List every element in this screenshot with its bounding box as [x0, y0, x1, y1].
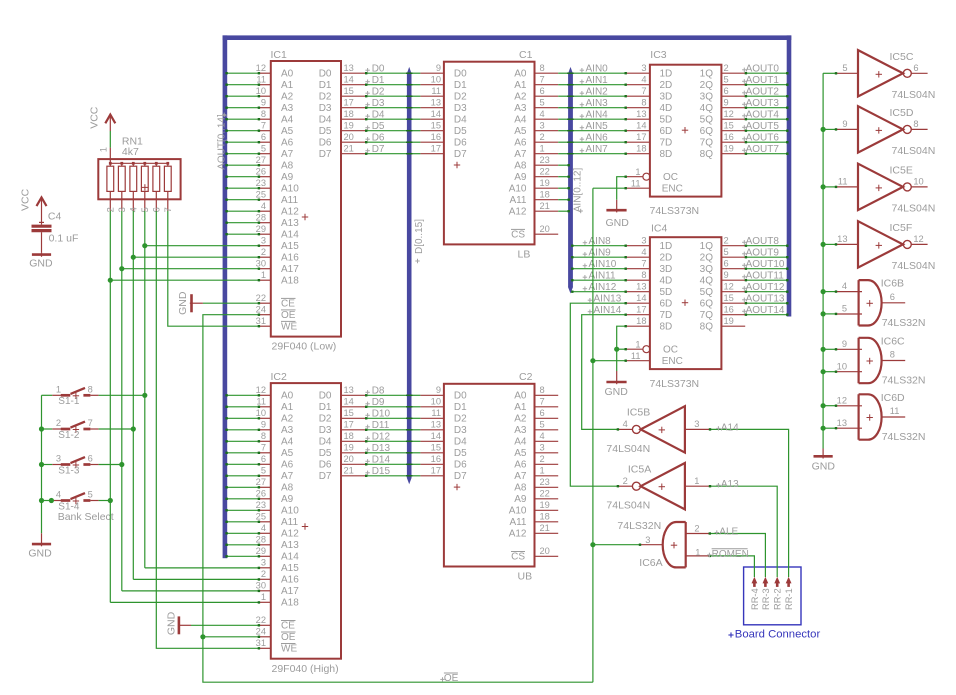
svg-text:2: 2 [261, 569, 266, 579]
net label AIN10 [583, 259, 617, 270]
wire AOUT8 bus to IC2 A8 [225, 486, 260, 488]
net label AIN0 [580, 64, 608, 75]
wire AIN5 C1 to bus [558, 130, 568, 132]
svg-text:9: 9 [261, 419, 266, 429]
svg-text:D15: D15 [372, 466, 391, 477]
net label AOUT12 [742, 282, 785, 293]
svg-text:A7: A7 [514, 471, 527, 482]
svg-text:5Q: 5Q [700, 115, 714, 126]
net label D7 [365, 144, 385, 155]
svg-text:WE: WE [281, 644, 297, 655]
svg-text:A12: A12 [281, 207, 299, 218]
svg-text:RR-4: RR-4 [750, 588, 760, 610]
svg-text:A8: A8 [514, 483, 527, 494]
svg-text:11: 11 [431, 408, 441, 418]
svg-text:A5: A5 [281, 448, 294, 459]
svg-text:8: 8 [88, 385, 93, 395]
wire D7 IC1 to bus [365, 153, 407, 155]
net label AIN11 [583, 271, 616, 282]
svg-text:4Q: 4Q [700, 103, 714, 114]
Bank Select label [58, 511, 114, 523]
svg-text:Bank Select: Bank Select [58, 511, 114, 523]
svg-text:17: 17 [636, 132, 646, 142]
GND text under C4 [29, 258, 53, 270]
svg-text:5: 5 [724, 247, 729, 257]
wire AIN12 C1 to bus [558, 210, 570, 212]
svg-text:OC: OC [663, 172, 678, 183]
wire A15 to IC2 [145, 567, 260, 569]
wire AIN10 C1 to bus [558, 187, 570, 189]
svg-text:4: 4 [540, 109, 545, 119]
IC4 name label [651, 223, 668, 235]
svg-text:D2: D2 [372, 87, 385, 98]
svg-text:AOUT12: AOUT12 [746, 282, 785, 293]
svg-text:A3: A3 [514, 425, 527, 436]
wire AIN2 C1 to bus [558, 95, 568, 97]
svg-text:D7: D7 [319, 471, 332, 482]
net label AIN9 [583, 248, 611, 259]
svg-text:D[0..15]: D[0..15] [414, 219, 425, 254]
svg-text:25: 25 [256, 189, 266, 199]
net label D1 [365, 75, 385, 86]
svg-text:3: 3 [540, 442, 545, 452]
wire D11 bus to C2 [406, 429, 420, 431]
svg-text:D5: D5 [319, 126, 332, 137]
svg-text:18: 18 [636, 316, 646, 326]
S1-1 name label [58, 396, 80, 407]
svg-text:IC6C: IC6C [881, 335, 905, 347]
wire IC4 8D to OC [617, 325, 627, 349]
net label AIN2 [580, 87, 608, 98]
net label AIN12 [583, 282, 617, 293]
svg-text:RR-2: RR-2 [773, 588, 783, 610]
wire AOUT13 bus to IC1 A13 [225, 222, 260, 224]
wire AOUT1 bus to IC2 A1 [225, 406, 260, 408]
svg-text:A10: A10 [509, 184, 527, 195]
net label AIN6 [580, 133, 608, 144]
net OE: IC1 OE down and bottom run [203, 314, 593, 683]
inverter IC5E 74LS04N [836, 164, 928, 210]
svg-text:5: 5 [261, 465, 266, 475]
svg-text:ALE: ALE [719, 527, 738, 538]
svg-text:74LS04N: 74LS04N [892, 89, 936, 101]
svg-text:IC2: IC2 [271, 371, 288, 383]
svg-text:3D: 3D [660, 92, 673, 103]
wire D15 IC2 to bus [365, 475, 407, 477]
svg-text:A5: A5 [514, 126, 527, 137]
svg-text:OC: OC [663, 344, 678, 355]
wire AIN11 bus to IC4 [571, 279, 627, 281]
svg-text:2Q: 2Q [700, 80, 714, 91]
svg-text:27: 27 [256, 155, 266, 165]
wire A17 to IC2 [122, 590, 260, 592]
svg-text:9: 9 [261, 97, 266, 107]
svg-text:2: 2 [724, 235, 729, 245]
svg-text:7Q: 7Q [700, 310, 714, 321]
svg-text:23: 23 [540, 155, 550, 165]
svg-text:19: 19 [344, 120, 354, 130]
svg-text:7: 7 [261, 120, 266, 130]
svg-text:A12: A12 [509, 207, 527, 218]
svg-text:6: 6 [890, 292, 895, 302]
wire AOUT12 bus to IC1 A12 [225, 210, 260, 212]
wire AOUT2 bus to IC2 A2 [225, 417, 260, 419]
svg-text:10: 10 [431, 396, 441, 406]
wire switch common left vertical to GND [42, 395, 53, 533]
svg-text:9: 9 [724, 270, 729, 280]
wire IC4 ENC to ENC net [593, 360, 627, 362]
svg-text:D7: D7 [454, 149, 467, 160]
svg-text:A8: A8 [514, 161, 527, 172]
svg-text:D2: D2 [454, 414, 467, 425]
ground symbol right column [814, 449, 833, 459]
svg-text:A5: A5 [281, 126, 294, 137]
svg-text:1: 1 [694, 476, 699, 486]
net label D0 [365, 64, 385, 75]
wire VCC to RN1 pin 1 [109, 131, 111, 148]
IC5E name label [890, 165, 913, 177]
svg-text:AIN4: AIN4 [586, 110, 609, 121]
svg-text:6: 6 [261, 454, 266, 464]
wire AOUT9 bus to IC1 A9 [225, 176, 260, 178]
svg-text:2: 2 [724, 63, 729, 73]
svg-text:A3: A3 [281, 425, 294, 436]
wire AIN9 bus to IC4 [571, 256, 627, 258]
junction A15/S1-1 [142, 393, 147, 398]
S1-4 name label [58, 501, 80, 512]
S1-3 name label [58, 465, 80, 476]
svg-text:5D: 5D [660, 287, 673, 298]
wire AOUT6 bus to IC1 A6 [225, 141, 260, 143]
svg-text:29F040 (High): 29F040 (High) [272, 663, 339, 675]
svg-text:13: 13 [636, 281, 646, 291]
junction feed 7 [821, 369, 826, 374]
wire AOUT14 bus to IC2 A14 [225, 555, 260, 557]
svg-text:D11: D11 [372, 420, 390, 431]
C4 name label [48, 211, 62, 223]
VCC text at C4 [20, 188, 32, 211]
net label AOUT6 [742, 133, 779, 144]
wire AOUT4 IC3 to bus [745, 118, 789, 120]
net label D4 [365, 110, 385, 121]
svg-text:A9: A9 [514, 494, 527, 505]
svg-text:2: 2 [623, 476, 628, 486]
wire AIN8 C1 to bus [558, 164, 570, 166]
svg-text:IC4: IC4 [651, 223, 668, 235]
switch S1-3 [52, 454, 98, 469]
net label AOUT4 [742, 110, 779, 121]
net label D3 [365, 98, 385, 109]
svg-text:74LS32N: 74LS32N [882, 431, 926, 443]
svg-text:D10: D10 [372, 409, 391, 420]
flash ROM IC2 29F040 (High) [256, 383, 366, 659]
svg-text:4D: 4D [660, 103, 673, 114]
svg-text:3: 3 [540, 120, 545, 130]
svg-text:6: 6 [540, 86, 545, 96]
IC6D name label [881, 392, 905, 404]
svg-text:A15: A15 [281, 563, 299, 574]
wire feed stub 3 [823, 243, 837, 245]
svg-text:19: 19 [724, 143, 734, 153]
svg-text:5D: 5D [660, 115, 673, 126]
junction feed 2 [821, 184, 826, 189]
svg-text:11: 11 [890, 406, 900, 416]
switch S1-2 [52, 418, 98, 433]
svg-text:13: 13 [344, 385, 354, 395]
wire D9 IC2 to bus [365, 406, 407, 408]
IC3 value label 74LS373N [650, 205, 700, 217]
svg-text:IC5F: IC5F [890, 222, 913, 234]
IC5E value label 74LS04N [892, 202, 936, 214]
svg-text:11: 11 [631, 178, 641, 188]
svg-text:5: 5 [540, 419, 545, 429]
wire feed stub 6 [823, 348, 837, 350]
net label AOUT1 [742, 75, 779, 86]
IC5B name label [627, 407, 650, 419]
wire AOUT12 IC4 to bus [745, 291, 789, 293]
svg-text:16: 16 [724, 304, 734, 314]
svg-text:8: 8 [261, 431, 266, 441]
svg-text:7: 7 [261, 442, 266, 452]
wire AIN7 C1 to bus [558, 153, 568, 155]
svg-text:A1: A1 [514, 80, 527, 91]
svg-text:D4: D4 [319, 115, 332, 126]
IC5C value label 74LS04N [892, 89, 936, 101]
svg-text:D6: D6 [372, 133, 385, 144]
svg-text:D0: D0 [319, 69, 332, 80]
svg-text:A11: A11 [281, 195, 298, 206]
svg-text:1Q: 1Q [700, 69, 714, 80]
svg-text:8: 8 [540, 385, 545, 395]
svg-text:D6: D6 [319, 138, 332, 149]
wire AIN4 bus to IC3 [567, 118, 627, 120]
svg-text:23: 23 [256, 500, 266, 510]
svg-text:28: 28 [256, 534, 266, 544]
wire AIN6 C1 to bus [558, 141, 568, 143]
svg-text:GND: GND [177, 291, 189, 315]
svg-text:Board Connector: Board Connector [735, 628, 821, 640]
svg-text:8Q: 8Q [700, 322, 714, 333]
svg-text:17: 17 [636, 304, 646, 314]
svg-text:A11: A11 [509, 195, 526, 206]
svg-text:15: 15 [344, 408, 354, 418]
svg-text:A16: A16 [281, 575, 299, 586]
wire AIN0 bus to IC3 [567, 72, 627, 74]
junction ENC at IC6A output [590, 542, 595, 547]
net label ROMEN [707, 549, 749, 560]
svg-text:14: 14 [431, 109, 441, 119]
wire AOUT6 bus to IC2 A6 [225, 463, 260, 465]
net label AOUT14 [742, 305, 785, 316]
VCC symbol above RN1 [105, 115, 115, 131]
svg-text:CS: CS [511, 230, 525, 241]
svg-text:6: 6 [540, 408, 545, 418]
svg-text:10: 10 [256, 86, 266, 96]
svg-text:11: 11 [631, 351, 641, 361]
wire AOUT8 IC4 to bus [745, 245, 789, 247]
svg-text:13: 13 [431, 419, 441, 429]
svg-text:10: 10 [431, 74, 441, 84]
svg-text:5Q: 5Q [700, 287, 714, 298]
wire feed stub 0 [823, 72, 837, 74]
wire AOUT4 bus to IC1 A4 [225, 118, 260, 120]
svg-text:GND: GND [29, 258, 53, 270]
svg-text:D9: D9 [372, 397, 385, 408]
wire D13 bus to C2 [406, 452, 420, 454]
wire D10 bus to C2 [406, 417, 420, 419]
svg-text:14: 14 [344, 74, 354, 84]
svg-text:C1: C1 [519, 49, 533, 61]
wire AOUT14 IC4 to bus [745, 314, 789, 316]
net label AOUT9 [742, 248, 779, 259]
wire D10 IC2 to bus [365, 417, 407, 419]
wire AIN2 bus to IC3 [567, 95, 627, 97]
svg-text:1: 1 [99, 147, 109, 152]
wire AOUT0 IC3 to bus [745, 72, 789, 74]
svg-text:AIN5: AIN5 [586, 121, 609, 132]
wire AIN4 C1 to bus [558, 118, 568, 120]
wire switch S1-3 to net A17 [99, 464, 122, 466]
wire D14 bus to C2 [406, 463, 420, 465]
svg-text:UB: UB [518, 571, 533, 583]
svg-text:2: 2 [540, 454, 545, 464]
svg-text:C2: C2 [519, 371, 533, 383]
net label AIN13 [588, 294, 622, 305]
svg-text:11: 11 [256, 396, 266, 406]
IC6C name label [881, 335, 905, 347]
junction ENC at IC4 [590, 358, 595, 363]
RN1 name label [122, 136, 143, 148]
svg-text:3Q: 3Q [700, 92, 714, 103]
svg-text:3Q: 3Q [700, 264, 714, 275]
svg-text:IC6D: IC6D [881, 392, 905, 404]
junction feed 9 [821, 426, 826, 431]
C2 value label UB [518, 571, 533, 583]
net ALE: IC6A input to connector RR-3 [709, 532, 766, 577]
svg-text:13: 13 [344, 63, 354, 73]
net label A14 [716, 422, 739, 433]
inverter IC5C 74LS04N [836, 50, 928, 96]
svg-text:28: 28 [256, 212, 266, 222]
svg-text:13: 13 [636, 109, 646, 119]
svg-text:D0: D0 [319, 391, 332, 402]
svg-text:ROMEN: ROMEN [712, 549, 749, 560]
svg-text:A0: A0 [281, 391, 294, 402]
svg-text:A6: A6 [514, 138, 527, 149]
net grounded-inputs vertical feed [822, 73, 824, 448]
svg-text:15: 15 [431, 442, 441, 452]
svg-text:IC1: IC1 [271, 49, 288, 61]
wire feed stub 1 [823, 128, 837, 130]
junction feed 6 [821, 347, 826, 352]
svg-text:12: 12 [913, 234, 923, 244]
svg-text:AOUT5: AOUT5 [746, 121, 780, 132]
svg-text:3: 3 [645, 535, 650, 545]
svg-text:13: 13 [837, 418, 847, 428]
svg-text:S1-2: S1-2 [58, 430, 80, 441]
svg-text:A15: A15 [281, 241, 299, 252]
svg-text:74LS32N: 74LS32N [882, 375, 926, 387]
junction A17/S1-3 [119, 462, 124, 467]
svg-text:30: 30 [256, 580, 266, 590]
wire D3 bus to C1 [406, 107, 420, 109]
wire AOUT0 bus to IC2 A0 [225, 394, 260, 396]
net label AIN14 [588, 305, 622, 316]
svg-text:AIN6: AIN6 [586, 133, 609, 144]
svg-text:A17: A17 [281, 264, 299, 275]
GND text under switches [28, 548, 52, 560]
wire A18 to IC1 [110, 279, 260, 281]
wire feed stub 2 [823, 186, 837, 188]
wire AIN7 bus to IC3 [567, 153, 627, 155]
wire AIN3 bus to IC3 [567, 107, 627, 109]
svg-text:12: 12 [724, 281, 734, 291]
wire AOUT3 bus to IC1 A3 [225, 107, 260, 109]
RN1 pins 2-7 numbers [106, 207, 174, 212]
wire feed stub 5 [823, 313, 837, 315]
svg-text:5: 5 [261, 143, 266, 153]
wire switch S1-2 to net A16 [99, 428, 134, 430]
net label OE [440, 673, 458, 684]
svg-text:A18: A18 [281, 276, 299, 287]
wire feed stub 9 [823, 427, 837, 429]
VCC symbol at C4 [37, 197, 47, 208]
RN1 value label 4k7 [122, 146, 139, 158]
wire A16 to IC1 [133, 256, 260, 258]
svg-text:AIN14: AIN14 [594, 305, 622, 316]
inverter IC5F 74LS04N [836, 221, 928, 267]
wire AOUT7 bus to IC2 A7 [225, 475, 260, 477]
svg-text:15: 15 [344, 86, 354, 96]
svg-text:6: 6 [88, 454, 93, 464]
svg-text:A0: A0 [514, 391, 527, 402]
latch block C1 (LB) [420, 62, 558, 245]
svg-text:A2: A2 [281, 92, 294, 103]
svg-text:AIN[0..12]: AIN[0..12] [573, 168, 584, 213]
svg-text:CE: CE [281, 299, 295, 310]
svg-text:6: 6 [724, 258, 729, 268]
svg-text:24: 24 [256, 304, 266, 314]
svg-text:A14: A14 [281, 552, 299, 563]
wire IC4 OC stub [617, 348, 627, 350]
wire AIN8 bus to IC4 [571, 245, 627, 247]
svg-text:OE: OE [281, 632, 296, 643]
svg-text:D7: D7 [372, 144, 385, 155]
svg-text:A17: A17 [281, 586, 299, 597]
wire AOUT14 bus to IC1 A14 [225, 233, 260, 235]
svg-text:74LS32N: 74LS32N [617, 520, 661, 532]
svg-text:14: 14 [636, 120, 646, 130]
junction A18/IC1 wire [108, 278, 113, 283]
inverter IC5A 74LS04N (mirrored) [617, 463, 709, 509]
wire AIN10 bus to IC4 [571, 268, 627, 270]
wire switch S1-1 to net A15 [99, 394, 145, 396]
svg-text:29F040 (Low): 29F040 (Low) [272, 341, 337, 353]
junction feed 3 [821, 242, 826, 247]
wire AIN11 C1 to bus [558, 199, 570, 201]
wire D2 IC1 to bus [365, 95, 407, 97]
wire IC3 ENC to ENC net [593, 187, 627, 189]
svg-text:1: 1 [540, 143, 545, 153]
svg-text:S1-3: S1-3 [58, 465, 80, 476]
svg-text:3: 3 [694, 419, 699, 429]
IC5B value label 74LS04N [606, 443, 650, 455]
svg-text:4: 4 [641, 74, 646, 84]
wire IC3 OC to ground [617, 176, 627, 200]
net ROMEN: IC6A input to connector RR-4 [709, 555, 755, 577]
svg-text:8Q: 8Q [700, 149, 714, 160]
svg-text:17: 17 [431, 143, 441, 153]
